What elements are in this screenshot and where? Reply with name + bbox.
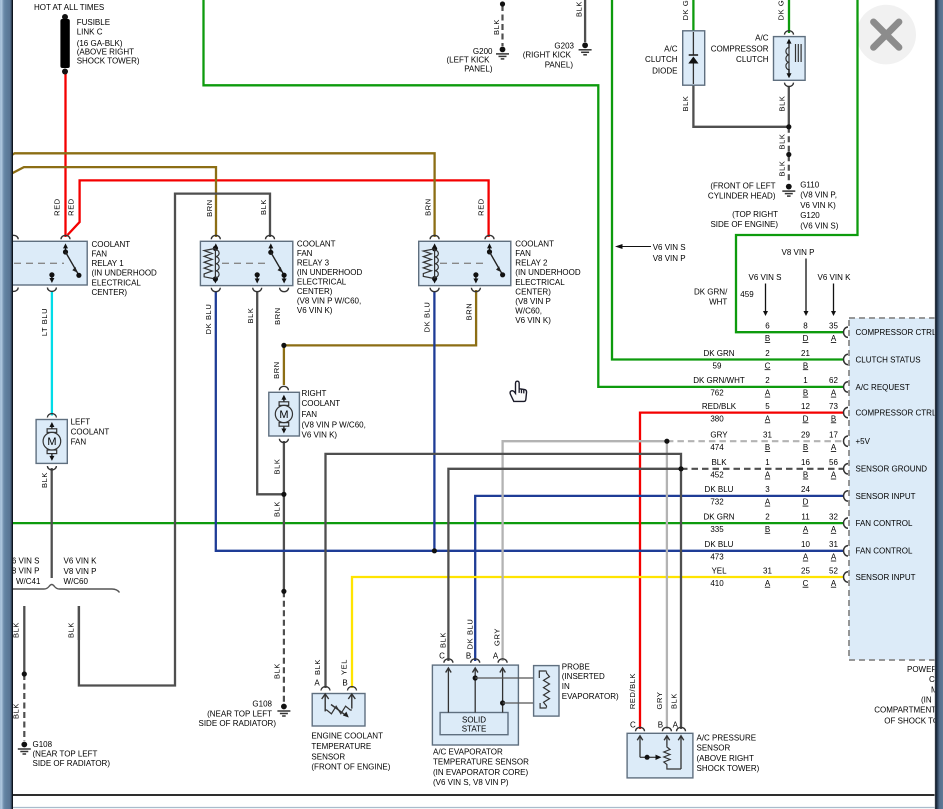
svg-text:732: 732 — [710, 498, 724, 507]
svg-text:DK GRN: DK GRN — [703, 512, 734, 521]
svg-text:(TOP RIGHT: (TOP RIGHT — [732, 210, 778, 219]
wire: LT BLU relay1 to left coolant fan — [51, 291, 53, 416]
wire: green A/C REQUEST net from top-left to PCM — [204, 0, 844, 387]
svg-text:A: A — [831, 553, 837, 562]
svg-text:(V8 VIN P W/C60,: (V8 VIN P W/C60, — [297, 297, 361, 306]
svg-text:(INSERTED: (INSERTED — [562, 672, 605, 681]
svg-text:A: A — [765, 579, 771, 588]
svg-text:B: B — [342, 678, 347, 687]
coil: A/C COMPRESSOR CLUTCH — [785, 31, 794, 35]
wire: YEL SENSOR INPUT from ECT sensor pin B — [352, 577, 844, 688]
svg-text:FAN: FAN — [92, 250, 108, 259]
svg-text:D: D — [803, 334, 809, 343]
svg-text:62: 62 — [829, 376, 838, 385]
svg-text:10: 10 — [801, 540, 810, 549]
ground G203 — [582, 42, 588, 48]
svg-text:A: A — [831, 443, 837, 452]
svg-text:DK GRN: DK GRN — [777, 0, 786, 20]
svg-text:FUSIBLE: FUSIBLE — [77, 18, 110, 27]
svg-text:A: A — [673, 720, 679, 729]
wire: BLK brace left branch to G108 — [23, 606, 25, 674]
svg-text:A: A — [831, 579, 837, 588]
junction: BLK splice to G108 left — [22, 671, 27, 676]
wire: red feed from fusible link to relay 1 — [64, 74, 66, 237]
svg-text:G110: G110 — [800, 181, 820, 190]
svg-text:380: 380 — [710, 414, 724, 423]
svg-text:BLK: BLK — [272, 663, 281, 679]
wire: GRY dashed +5V row to PCM — [667, 440, 844, 442]
svg-text:COOLANT: COOLANT — [297, 239, 336, 248]
wire: green CLUTCH STATUS net vertical x=612 to PCM — [612, 0, 844, 360]
svg-text:M: M — [47, 436, 56, 448]
junction: BLK relay3 output to fan ground — [281, 492, 286, 497]
svg-text:2: 2 — [765, 376, 770, 385]
svg-text:ENGINE COOLANT: ENGINE COOLANT — [311, 731, 383, 740]
svg-text:COMPRESSOR CTRL: COMPRESSOR CTRL — [856, 409, 937, 418]
svg-text:BLK: BLK — [575, 1, 584, 17]
svg-text:V6 VIN K): V6 VIN K) — [515, 316, 551, 325]
svg-text:FAN: FAN — [297, 249, 313, 258]
svg-text:SENSOR GROUND: SENSOR GROUND — [856, 465, 928, 474]
svg-text:CENTER): CENTER) — [92, 288, 128, 297]
svg-text:G108: G108 — [252, 700, 272, 709]
svg-text:CLUTCH: CLUTCH — [736, 55, 769, 64]
svg-text:BLK: BLK — [778, 134, 787, 150]
svg-text:SENSOR: SENSOR — [697, 744, 731, 753]
svg-text:LEFT: LEFT — [71, 417, 91, 426]
svg-text:GRY: GRY — [655, 692, 664, 710]
svg-text:2: 2 — [765, 349, 770, 358]
svg-text:DK BLU: DK BLU — [465, 619, 474, 650]
svg-text:335: 335 — [710, 525, 724, 534]
junction: BLK splice to G108 right — [281, 589, 286, 594]
wire: brown feed 1 to coolant fan relay 2 coil — [3, 153, 435, 237]
svg-text:SHOCK TOWER): SHOCK TOWER) — [77, 57, 140, 66]
svg-text:(NEAR TOP LEFT: (NEAR TOP LEFT — [33, 750, 98, 759]
diode: A/C CLUTCH DIODE — [683, 31, 705, 85]
svg-text:W/C60: W/C60 — [64, 577, 89, 586]
diagram bottom border — [13, 794, 935, 796]
svg-text:SIDE OF RADIATOR): SIDE OF RADIATOR) — [199, 719, 277, 728]
svg-text:56: 56 — [829, 458, 838, 467]
svg-text:SOLID: SOLID — [462, 716, 486, 725]
wire: BLK loop relay3 switch feed — [79, 194, 270, 686]
svg-text:A: A — [831, 471, 837, 480]
svg-text:31: 31 — [763, 431, 772, 440]
svg-text:A/C PRESSURE: A/C PRESSURE — [697, 734, 757, 743]
svg-text:YEL: YEL — [711, 566, 727, 575]
svg-text:BLK: BLK — [259, 199, 268, 215]
svg-text:D: D — [803, 498, 809, 507]
svg-text:DK BLU: DK BLU — [705, 540, 734, 549]
svg-text:BLK: BLK — [272, 459, 281, 475]
svg-text:M: M — [279, 409, 288, 421]
svg-text:CLUTCH STATUS: CLUTCH STATUS — [856, 355, 921, 364]
motor: LEFT COOLANT FAN — [47, 414, 56, 418]
svg-text:(V8 VIN P: (V8 VIN P — [515, 297, 551, 306]
svg-text:COOLANT: COOLANT — [515, 239, 554, 248]
close (X) button — [856, 5, 916, 65]
svg-text:SENSOR INPUT: SENSOR INPUT — [856, 573, 916, 582]
svg-text:SHOCK TOWER): SHOCK TOWER) — [697, 764, 760, 773]
svg-text:G108: G108 — [33, 740, 53, 749]
sensor: ENGINE COOLANT TEMPERATURE SENSOR — [321, 687, 330, 691]
svg-text:ELECTRICAL: ELECTRICAL — [92, 278, 142, 287]
wire: red COMPRESSOR CTRL to A/C pressure sensor pin C — [640, 413, 844, 729]
wire: DK BLU relay3 to FAN CONTROL row — [216, 291, 844, 551]
svg-text:RED: RED — [477, 198, 486, 216]
svg-text:(IN UNDERHOOD: (IN UNDERHOOD — [515, 268, 581, 277]
svg-text:YEL: YEL — [340, 659, 349, 675]
relay: COOLANT FAN RELAY 1 — [12, 241, 87, 285]
svg-text:473: 473 — [710, 553, 724, 562]
wire: BLK dashed SENSOR GROUND row to PCM — [681, 468, 844, 470]
svg-text:35: 35 — [829, 322, 838, 331]
svg-text:BLK: BLK — [778, 96, 787, 112]
svg-text:COOLANT: COOLANT — [302, 399, 341, 408]
svg-text:DIODE: DIODE — [652, 66, 677, 75]
svg-text:LT BLU: LT BLU — [40, 308, 49, 336]
ground G110 — [786, 184, 792, 190]
svg-text:762: 762 — [710, 389, 724, 398]
junction: DK BLU FAN CONTROL node — [432, 548, 437, 553]
junction: diode/clutch BLK ground node — [786, 124, 791, 129]
svg-text:24: 24 — [801, 485, 810, 494]
svg-text:RIGHT: RIGHT — [302, 389, 327, 398]
svg-text:RED/BLK: RED/BLK — [702, 402, 737, 411]
svg-text:SIDE OF ENGINE): SIDE OF ENGINE) — [710, 220, 778, 229]
svg-text:(V8 VIN P W/C60,: (V8 VIN P W/C60, — [302, 421, 366, 430]
svg-text:A: A — [803, 525, 809, 534]
wire: BLK brace right branch — [78, 606, 80, 640]
junction: BLK SENSOR GROUND node — [678, 466, 683, 471]
svg-text:A: A — [831, 525, 837, 534]
svg-text:+5V: +5V — [856, 437, 871, 446]
svg-text:A: A — [493, 651, 499, 660]
svg-text:DK GRN: DK GRN — [681, 0, 690, 20]
svg-text:BLK: BLK — [272, 501, 281, 517]
wire: green FAN CONTROL row to PCM — [10, 522, 844, 524]
relay: COOLANT FAN RELAY 3 — [200, 241, 292, 285]
svg-text:OF SHOCK TOWER): OF SHOCK TOWER) — [884, 717, 943, 726]
svg-text:V6 VIN K: V6 VIN K — [818, 273, 852, 282]
svg-text:B: B — [803, 389, 808, 398]
svg-text:A/C: A/C — [755, 34, 769, 43]
svg-text:FAN CONTROL: FAN CONTROL — [856, 519, 913, 528]
relay: COOLANT FAN RELAY 2 — [419, 241, 511, 285]
svg-text:A/C: A/C — [664, 44, 678, 53]
svg-text:ELECTRICAL: ELECTRICAL — [297, 277, 347, 286]
svg-text:IN: IN — [562, 682, 570, 691]
svg-text:RELAY 2: RELAY 2 — [515, 258, 548, 267]
svg-text:459: 459 — [740, 290, 754, 299]
svg-text:SENSOR: SENSOR — [311, 752, 345, 761]
svg-text:B: B — [765, 334, 770, 343]
svg-text:SENSOR INPUT: SENSOR INPUT — [856, 492, 916, 501]
svg-text:A/C EVAPORATOR: A/C EVAPORATOR — [433, 747, 503, 756]
svg-text:TEMPERATURE: TEMPERATURE — [311, 742, 371, 751]
motor: RIGHT COOLANT FAN — [279, 386, 288, 390]
svg-text:6: 6 — [765, 322, 770, 331]
PCM module box (Powertrain Control Module) — [849, 318, 943, 660]
svg-text:8: 8 — [803, 322, 808, 331]
svg-text:CENTER): CENTER) — [297, 287, 333, 296]
svg-text:17: 17 — [829, 431, 838, 440]
wire: BLK relay3 output to right fan ground wire — [257, 291, 284, 494]
svg-text:B: B — [765, 443, 770, 452]
svg-text:(ABOVE RIGHT: (ABOVE RIGHT — [77, 48, 134, 57]
junction: BLK splice to G110 — [786, 152, 791, 157]
wire: BLK G200 dashed drop — [501, 5, 503, 46]
svg-text:G200: G200 — [473, 47, 493, 56]
ground G108 right — [281, 704, 287, 710]
svg-text:V6 VIN K): V6 VIN K) — [297, 306, 333, 315]
svg-text:(V8 VIN P,: (V8 VIN P, — [800, 191, 837, 200]
svg-text:BLK: BLK — [439, 632, 448, 648]
svg-text:5: 5 — [765, 402, 770, 411]
svg-text:BLK: BLK — [40, 472, 49, 488]
svg-text:A: A — [765, 389, 771, 398]
svg-text:410: 410 — [710, 579, 724, 588]
svg-text:16: 16 — [801, 458, 810, 467]
wire: brown relay2 output to right coolant fan — [284, 290, 476, 385]
svg-text:BLK: BLK — [246, 308, 255, 324]
svg-text:3: 3 — [765, 485, 770, 494]
junction: GRY +5V node — [664, 439, 669, 444]
svg-text:DK BLU: DK BLU — [423, 302, 432, 333]
arrow: V6 VIN S / V8 VIN P config pointer — [620, 246, 651, 248]
wire: DK GRN drop to A/C compressor clutch — [788, 0, 790, 33]
right scroll bar — [935, 0, 943, 809]
svg-text:C: C — [439, 651, 445, 660]
ground G108 left — [21, 742, 27, 748]
sensor: A/C EVAPORATOR TEMPERATURE SENSOR — [444, 659, 453, 663]
svg-text:GRY: GRY — [493, 628, 502, 646]
sensor: A/C PRESSURE SENSOR — [636, 727, 645, 731]
svg-text:B: B — [831, 414, 836, 423]
svg-text:DK BLU: DK BLU — [204, 304, 213, 335]
svg-text:W/C60,: W/C60, — [515, 307, 542, 316]
wire: DK BLU SENSOR INPUT from evaporator sensor pin B — [475, 496, 843, 661]
svg-text:B: B — [658, 720, 663, 729]
svg-text:G203: G203 — [554, 42, 574, 51]
wire: green COMPRESSOR CTRL net 459 from top right — [736, 0, 858, 332]
svg-text:(V6 VIN S, V8 VIN P): (V6 VIN S, V8 VIN P) — [433, 778, 509, 787]
svg-text:25: 25 — [801, 566, 810, 575]
svg-text:V8 VIN P: V8 VIN P — [653, 254, 686, 263]
wire: BLK SENSOR GROUND from evaporator pin C — [448, 469, 681, 661]
wire: BLK left coolant fan to brace — [51, 468, 53, 578]
svg-text:(RIGHT KICK: (RIGHT KICK — [523, 51, 572, 60]
svg-text:BRN: BRN — [272, 361, 281, 379]
svg-text:FAN: FAN — [515, 249, 531, 258]
svg-text:PANEL): PANEL) — [464, 65, 493, 74]
svg-text:B: B — [803, 443, 808, 452]
svg-text:32: 32 — [829, 512, 838, 521]
svg-text:RED: RED — [67, 198, 76, 216]
mouse cursor (pointing hand) — [510, 381, 526, 401]
svg-text:RELAY 1: RELAY 1 — [92, 259, 125, 268]
left scroll bar — [0, 0, 13, 809]
wire: BLK from ECT sensor pin A over to pressure sensor pin A — [326, 454, 682, 729]
svg-text:A: A — [314, 678, 320, 687]
svg-text:A: A — [803, 553, 809, 562]
svg-text:B: B — [765, 525, 770, 534]
svg-text:V6 VIN K: V6 VIN K — [64, 557, 98, 566]
svg-text:COOLANT: COOLANT — [71, 427, 110, 436]
svg-text:GRY: GRY — [710, 431, 728, 440]
svg-text:CENTER): CENTER) — [515, 287, 551, 296]
svg-text:BLK: BLK — [67, 622, 76, 638]
svg-text:(IN UNDERHOOD: (IN UNDERHOOD — [92, 269, 158, 278]
svg-text:BRN: BRN — [423, 198, 432, 216]
svg-text:31: 31 — [763, 566, 772, 575]
wire: BLK G203 drop — [584, 0, 586, 42]
svg-text:BRN: BRN — [273, 307, 282, 325]
svg-text:TEMPERATURE SENSOR: TEMPERATURE SENSOR — [433, 758, 529, 767]
svg-text:COMPARTMENT, FRONT: COMPARTMENT, FRONT — [874, 706, 943, 715]
svg-text:LINK C: LINK C — [77, 28, 103, 37]
svg-text:G120: G120 — [800, 211, 820, 220]
svg-text:B: B — [466, 651, 471, 660]
svg-text:D: D — [803, 414, 809, 423]
svg-text:BLK: BLK — [492, 19, 501, 35]
svg-text:29: 29 — [801, 431, 810, 440]
junction: G200 wire top splice — [500, 1, 505, 6]
probe with thermistor — [475, 677, 539, 679]
svg-text:12: 12 — [801, 402, 810, 411]
svg-text:BRN: BRN — [205, 199, 214, 217]
wire: brown feed 2 to coolant fan relay 3 coil — [11, 167, 216, 237]
svg-text:A: A — [765, 498, 771, 507]
svg-text:(IN UNDERHOOD: (IN UNDERHOOD — [297, 268, 363, 277]
svg-text:STATE: STATE — [462, 725, 487, 734]
wire: red branch relay1 to relay2 switch — [68, 180, 489, 237]
svg-text:COMPRESSOR: COMPRESSOR — [711, 44, 769, 53]
svg-text:C: C — [630, 720, 636, 729]
svg-text:WHT: WHT — [709, 297, 727, 306]
svg-text:52: 52 — [829, 566, 838, 575]
junction: BRN node right fan / relay2 — [281, 343, 286, 348]
svg-text:B: B — [803, 361, 808, 370]
svg-text:C: C — [803, 579, 809, 588]
svg-text:BLK: BLK — [313, 659, 322, 675]
svg-text:452: 452 — [710, 471, 724, 480]
svg-text:(FRONT OF ENGINE): (FRONT OF ENGINE) — [311, 763, 390, 772]
svg-text:(16 GA-BLK): (16 GA-BLK) — [77, 39, 123, 48]
svg-text:A/C REQUEST: A/C REQUEST — [856, 383, 910, 392]
svg-text:V6 VIN S: V6 VIN S — [749, 273, 782, 282]
svg-text:DK GRN/WHT: DK GRN/WHT — [693, 376, 745, 385]
svg-text:B: B — [803, 471, 808, 480]
svg-text:31: 31 — [829, 540, 838, 549]
svg-text:59: 59 — [713, 361, 722, 370]
svg-text:V6 VIN K): V6 VIN K) — [302, 431, 338, 440]
svg-text:V8 VIN P: V8 VIN P — [782, 248, 815, 257]
svg-text:BRN: BRN — [464, 303, 473, 321]
svg-text:CYLINDER HEAD): CYLINDER HEAD) — [708, 192, 776, 201]
svg-text:21: 21 — [801, 349, 810, 358]
ground G200 — [500, 47, 506, 53]
wire: BLK right coolant fan down to G108 — [283, 441, 285, 591]
wire: GRY +5V from evaporator pin A to pressure sensor pin B — [503, 441, 667, 661]
svg-text:(LEFT KICK: (LEFT KICK — [447, 56, 491, 65]
svg-text:A: A — [765, 471, 771, 480]
wire: BLK dashed to G110 — [788, 127, 790, 183]
wire: DK BLU relay2 drop to FAN CONTROL row — [433, 291, 435, 551]
svg-text:BLK: BLK — [778, 161, 787, 177]
wire: DK GRN drop to A/C clutch diode — [692, 0, 694, 31]
svg-text:1: 1 — [803, 376, 808, 385]
svg-text:73: 73 — [829, 402, 838, 411]
svg-text:RELAY 3: RELAY 3 — [297, 258, 330, 267]
svg-text:V6 VIN S: V6 VIN S — [653, 243, 686, 252]
svg-text:RED/BLK: RED/BLK — [628, 673, 637, 709]
svg-text:DK GRN/: DK GRN/ — [694, 287, 728, 296]
svg-text:(NEAR TOP LEFT: (NEAR TOP LEFT — [207, 709, 272, 718]
svg-text:RED: RED — [53, 198, 62, 216]
svg-text:(IN EVAPORATOR CORE): (IN EVAPORATOR CORE) — [433, 768, 528, 777]
svg-text:A: A — [765, 414, 771, 423]
svg-text:BLK: BLK — [711, 458, 727, 467]
svg-text:A: A — [831, 389, 837, 398]
svg-text:11: 11 — [801, 512, 810, 521]
svg-text:FAN: FAN — [71, 437, 87, 446]
svg-text:(V6 VIN S): (V6 VIN S) — [800, 221, 839, 230]
svg-text:COMPRESSOR CTRL: COMPRESSOR CTRL — [856, 328, 937, 337]
wire: BLK from A/C clutch diode and compressor clutch to ground node — [693, 85, 788, 127]
svg-text:(ABOVE RIGHT: (ABOVE RIGHT — [697, 754, 754, 763]
svg-text:1: 1 — [765, 458, 770, 467]
svg-text:HOT AT ALL TIMES: HOT AT ALL TIMES — [34, 3, 104, 12]
svg-text:SIDE OF RADIATOR): SIDE OF RADIATOR) — [33, 759, 111, 768]
svg-text:FAN: FAN — [302, 410, 318, 419]
svg-text:A: A — [831, 334, 837, 343]
svg-text:C: C — [765, 361, 771, 370]
svg-text:COOLANT: COOLANT — [92, 240, 131, 249]
svg-text:BLK: BLK — [669, 693, 678, 709]
svg-text:2: 2 — [765, 512, 770, 521]
brace: VIN config split under left fan — [12, 585, 120, 593]
svg-text:EVAPORATOR): EVAPORATOR) — [562, 692, 619, 701]
svg-text:W/C41: W/C41 — [16, 577, 41, 586]
svg-text:V6 VIN K): V6 VIN K) — [800, 201, 836, 210]
svg-text:BLK: BLK — [681, 96, 690, 112]
svg-text:V8 VIN P: V8 VIN P — [64, 567, 97, 576]
svg-text:PROBE: PROBE — [562, 662, 590, 671]
svg-text:474: 474 — [710, 443, 724, 452]
svg-text:(FRONT OF LEFT: (FRONT OF LEFT — [710, 181, 775, 190]
svg-text:DK BLU: DK BLU — [705, 485, 734, 494]
svg-text:FAN CONTROL: FAN CONTROL — [856, 547, 913, 556]
svg-text:DK GRN: DK GRN — [703, 349, 734, 358]
svg-text:PANEL): PANEL) — [545, 60, 574, 69]
svg-text:CLUTCH: CLUTCH — [645, 55, 678, 64]
svg-text:ELECTRICAL: ELECTRICAL — [515, 278, 565, 287]
